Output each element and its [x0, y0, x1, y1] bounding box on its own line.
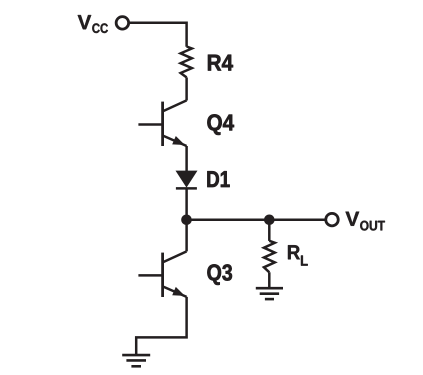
wire VCC to R4	[130, 23, 187, 47]
ground (left, under Q3)	[122, 355, 150, 366]
terminal VCC	[116, 17, 128, 30]
node junction dot B	[264, 215, 275, 226]
node junction dot A	[181, 215, 192, 226]
label R4	[208, 55, 233, 71]
label VOUT	[346, 212, 385, 231]
wire Q3 emitter to ground	[136, 297, 186, 355]
transistor Q4	[138, 100, 186, 146]
label Q4	[207, 114, 234, 135]
wire R4 to Q4 collector	[185, 77, 188, 100]
label VCC	[78, 15, 108, 33]
wire node B to RL	[268, 220, 271, 241]
wire D1 to node	[185, 188, 188, 220]
label D1	[207, 171, 229, 187]
resistor R4	[181, 47, 192, 78]
wire node to VOUT	[187, 219, 326, 222]
transistor Q3	[138, 251, 186, 297]
label RL	[288, 245, 308, 265]
wire node A to Q3 collector	[185, 220, 188, 252]
wire RL to ground	[268, 272, 271, 288]
label Q3	[207, 264, 232, 285]
ground (right, under RL)	[256, 288, 283, 299]
diode D1	[176, 171, 198, 189]
terminal VOUT	[326, 213, 339, 226]
resistor RL	[264, 241, 275, 272]
wire Q4 emitter to D1	[185, 146, 188, 171]
